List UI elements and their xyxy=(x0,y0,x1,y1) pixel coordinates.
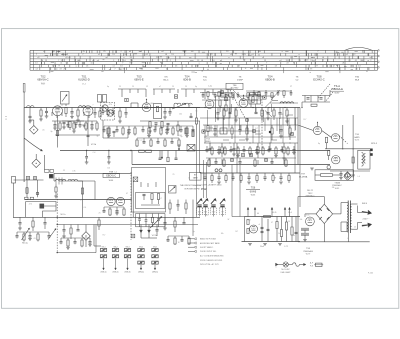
svg-text:L-4: L-4 xyxy=(188,105,191,107)
svg-text:8p: 8p xyxy=(193,231,195,233)
squares row mid xyxy=(242,154,245,157)
svg-text:.05: .05 xyxy=(33,238,35,240)
second rail B2 xyxy=(140,120,200,122)
power left vertical xyxy=(297,197,299,242)
band right end circles xyxy=(378,50,379,69)
terminal square TP3 xyxy=(224,97,227,100)
svg-text:4.7k: 4.7k xyxy=(29,204,32,206)
resistor RE2 xyxy=(26,188,28,194)
resistor RF2 xyxy=(157,194,159,200)
tube TS6b xyxy=(332,134,340,142)
boxed label E7 xyxy=(190,172,202,180)
IF can box TR1 xyxy=(216,96,231,118)
TR extra verticals 2 xyxy=(207,104,296,140)
grid caps D xyxy=(317,123,319,127)
labels above TR tubes xyxy=(208,86,293,88)
ground D2 xyxy=(352,171,354,175)
band top arc right xyxy=(345,47,372,50)
svg-text:P-102: P-102 xyxy=(368,273,374,275)
svg-text:47-4: 47-4 xyxy=(82,84,86,86)
jog glyphs rail xyxy=(25,197,28,199)
capacitor C6 xyxy=(75,122,78,124)
wire rail E left xyxy=(14,179,44,181)
svg-text:P.W.: P.W. xyxy=(201,187,207,191)
IF can box TR2 xyxy=(249,95,261,105)
resistor RD1 xyxy=(325,137,327,143)
svg-text:1/2SP: 1/2SP xyxy=(237,80,243,82)
wire v 132 xyxy=(131,151,133,165)
svg-text:L-4: L-4 xyxy=(206,215,209,217)
wire F inner xyxy=(141,204,160,206)
mains plug P1 xyxy=(358,206,372,228)
VC1 lower caps xyxy=(138,218,141,220)
arrow into rail 179 xyxy=(178,144,180,151)
tube label row xyxy=(37,74,359,85)
coil L2 humps xyxy=(79,106,86,108)
ground C3 xyxy=(70,116,74,118)
resistor RF1 xyxy=(151,194,153,200)
wire drop 162 xyxy=(161,151,163,158)
diag dashed xyxy=(230,90,245,118)
svg-text:25: 25 xyxy=(119,86,121,88)
band right termination ladder xyxy=(345,50,372,70)
svg-text:EQ-7662: EQ-7662 xyxy=(231,88,239,90)
wire v 342.8 xyxy=(342,125,344,149)
svg-text:8u: 8u xyxy=(293,235,295,237)
TR top strip components xyxy=(200,90,292,101)
relay contact column 1 xyxy=(100,246,106,273)
svg-text:L-4: L-4 xyxy=(357,176,360,178)
diamond D jack xyxy=(344,173,352,181)
left margin tiny marks xyxy=(5,116,7,121)
resistor under coil xyxy=(55,187,57,192)
resistor RC5 xyxy=(261,108,263,111)
wire F to right xyxy=(192,200,194,218)
svg-text:THE CIRCUIT DIAGRAM: THE CIRCUIT DIAGRAM xyxy=(180,184,202,187)
ground C2 xyxy=(45,115,49,117)
resistor RF5 xyxy=(174,217,176,221)
svg-text:DIAL LAMP: DIAL LAMP xyxy=(281,271,292,274)
wire rail E step xyxy=(43,155,45,170)
svg-text:25: 25 xyxy=(185,86,187,88)
svg-text:W-73: W-73 xyxy=(355,139,359,141)
capacitor CC8 xyxy=(279,108,281,113)
trimmer box F xyxy=(169,186,177,194)
resistor RF3 xyxy=(169,200,171,204)
svg-text:SPK-3: SPK-3 xyxy=(371,143,378,145)
TL extra drops xyxy=(102,108,115,118)
drop e3 xyxy=(44,217,46,222)
vert 57 connects xyxy=(57,217,58,218)
resistor R15 xyxy=(161,122,163,128)
capacitor C14 xyxy=(190,113,192,116)
loop rect E xyxy=(59,181,83,217)
contact E2 xyxy=(36,192,39,195)
wire v 295 xyxy=(294,108,296,126)
wire hump link xyxy=(173,105,175,108)
svg-text:25: 25 xyxy=(173,174,175,176)
arrowhead gang xyxy=(40,149,42,151)
lower rail C3 xyxy=(204,142,298,144)
diamond jack J1 xyxy=(30,126,39,135)
svg-text:SHORT WAVE 1: SHORT WAVE 1 xyxy=(200,246,213,249)
drop l1 xyxy=(209,143,211,148)
svg-text:1k: 1k xyxy=(278,233,280,235)
svg-text:220V ~: 220V ~ xyxy=(363,219,371,221)
wire bridge top link xyxy=(300,196,310,198)
capacitor C17 xyxy=(113,130,116,132)
capacitor CF3 xyxy=(164,217,166,222)
svg-text:8p: 8p xyxy=(97,135,99,137)
rail D mid xyxy=(325,148,372,150)
diamond jack J2 xyxy=(32,159,41,168)
svg-text:W-63: W-63 xyxy=(251,194,255,196)
svg-text:R-7: R-7 xyxy=(304,119,307,121)
wire v133 solid xyxy=(132,177,134,217)
capacitor C13 xyxy=(169,108,171,112)
ground R1 xyxy=(39,118,43,120)
tube value labels xyxy=(61,99,251,107)
svg-text:C-4a: C-4a xyxy=(208,86,212,88)
drop e6 xyxy=(77,225,79,230)
svg-text:R-7: R-7 xyxy=(235,231,238,233)
wire TS2 down xyxy=(57,116,59,148)
svg-text:W-40: W-40 xyxy=(41,83,45,85)
diamond E xyxy=(82,232,91,241)
capacitor C2 xyxy=(46,108,48,112)
OT1 windings xyxy=(362,153,364,167)
label TS13 xyxy=(332,182,342,190)
svg-text:10k: 10k xyxy=(179,113,182,115)
svg-text:DE-72: DE-72 xyxy=(307,190,314,192)
svg-text:WITH VTVM - AC 117V: WITH VTVM - AC 117V xyxy=(200,263,219,266)
IF transformer T1 can xyxy=(101,103,115,121)
tube humps F2 xyxy=(116,197,124,205)
wire D down xyxy=(301,102,303,108)
svg-text:R-7: R-7 xyxy=(103,234,106,236)
wire bridge bottom xyxy=(323,224,325,242)
speaker loop rect xyxy=(26,202,56,218)
texture long verticals xyxy=(197,108,301,218)
diagonal link wires TR xyxy=(265,101,278,118)
resistor R14 xyxy=(149,122,151,128)
svg-text:R-7: R-7 xyxy=(255,128,258,130)
svg-text:SW1: SW1 xyxy=(204,211,208,213)
resistor RC3 xyxy=(235,108,237,111)
drop e1 xyxy=(19,217,21,222)
svg-text:25: 25 xyxy=(354,227,356,229)
svg-text:TAKE: TAKE xyxy=(193,177,199,180)
svg-text:TS6: TS6 xyxy=(251,187,256,190)
padder boxes xyxy=(98,95,102,103)
G top components xyxy=(204,173,206,177)
wire C verticals top xyxy=(204,89,206,99)
svg-text:4p: 4p xyxy=(107,86,109,88)
wire main top rail xyxy=(24,107,200,109)
resistor RC16 xyxy=(271,125,273,128)
drop c1 xyxy=(217,108,219,113)
resistor R3 xyxy=(77,108,79,111)
resistor R4 xyxy=(99,108,101,112)
svg-text:47: 47 xyxy=(107,131,109,133)
diode F1 xyxy=(140,225,142,231)
texture misc labels xyxy=(29,104,360,244)
resistor RC9 xyxy=(286,108,288,111)
wire bridge right xyxy=(333,213,341,215)
svg-text:(SW-4): (SW-4) xyxy=(138,272,144,274)
wire bottom loop B xyxy=(102,120,104,138)
texture block BM extra xyxy=(103,207,194,245)
wire jack J1 stub xyxy=(33,120,35,126)
svg-text:R-7: R-7 xyxy=(57,109,60,111)
drop l4 xyxy=(257,143,259,147)
svg-text:12: 12 xyxy=(61,105,63,107)
capacitor CF1 xyxy=(143,193,146,195)
svg-text:SW-4: SW-4 xyxy=(139,246,143,248)
svg-text:4.7k: 4.7k xyxy=(109,104,112,106)
svg-text:SW-4: SW-4 xyxy=(362,203,368,205)
resistor R28b xyxy=(146,150,152,152)
svg-text:10k: 10k xyxy=(299,219,302,221)
drop l2 xyxy=(221,143,223,147)
drop l5 xyxy=(269,143,271,148)
svg-text:ECH42-C: ECH42-C xyxy=(313,78,325,82)
rail D bottom xyxy=(330,170,370,172)
coil humps TR right xyxy=(280,102,294,104)
rail C top xyxy=(200,88,232,90)
svg-text:W-64: W-64 xyxy=(109,180,113,182)
capacitor C5 xyxy=(63,121,66,123)
rail C mid xyxy=(200,107,300,109)
tube TS9 rect small xyxy=(306,217,315,226)
resistor RG0 on rail xyxy=(264,215,271,217)
svg-text:R-7: R-7 xyxy=(159,198,162,200)
connector box X xyxy=(133,177,138,182)
grid cap TS5 xyxy=(243,96,245,99)
arrow tuning xyxy=(172,104,186,110)
coil LE1 horizontal xyxy=(56,179,66,181)
capacitor CC2 xyxy=(229,108,231,113)
labels filter xyxy=(257,212,292,248)
wire diamond E xyxy=(85,225,87,232)
drop e4 xyxy=(63,225,65,230)
up arrows G xyxy=(247,207,291,216)
VC1 lower rails xyxy=(136,213,166,215)
svg-text:0.01: 0.01 xyxy=(306,214,309,216)
texture block TL dense xyxy=(52,112,100,135)
ground R3 xyxy=(76,119,80,121)
svg-text:6BD6-B: 6BD6-B xyxy=(265,78,275,82)
switch arrow MC1a xyxy=(22,228,30,240)
label TS9 bottom xyxy=(303,248,313,256)
relay contact column 3 xyxy=(124,246,130,273)
svg-text:N-2 6.3V: N-2 6.3V xyxy=(282,269,291,271)
wire v37.5 xyxy=(37,180,39,197)
svg-text:*: * xyxy=(276,267,277,270)
drop e2 xyxy=(32,217,34,221)
svg-text:47: 47 xyxy=(80,199,82,201)
capacitor CF2 xyxy=(177,200,179,205)
texture block TM dense xyxy=(103,89,201,162)
svg-text:6BY6A-C: 6BY6A-C xyxy=(37,78,48,82)
dial lamp circuit xyxy=(276,262,324,274)
double circle connector xyxy=(215,169,218,172)
small circle node xyxy=(327,166,330,169)
capacitor CC14 xyxy=(239,125,241,129)
VC1 enclosure box xyxy=(132,168,166,213)
tube TS6a xyxy=(313,126,321,134)
rail E second xyxy=(57,224,198,226)
resistor RC1 xyxy=(223,108,225,111)
wire D verticals xyxy=(304,96,306,103)
resistor RC10 xyxy=(207,126,209,132)
VC1 inner loop xyxy=(136,193,166,209)
svg-text:6-C: 6-C xyxy=(203,80,207,82)
variable arrow VC1 xyxy=(150,217,162,229)
resistor RD0 xyxy=(311,104,317,106)
svg-text:C-4: C-4 xyxy=(140,139,143,141)
TR mid extra rails xyxy=(202,100,298,103)
box lower xyxy=(187,145,195,152)
tube humps F1 xyxy=(107,197,115,205)
top right box TB1 xyxy=(315,170,354,181)
io glyphs xyxy=(26,176,29,179)
power bottom rail xyxy=(298,241,370,243)
resistor R5 xyxy=(69,122,71,128)
note P.W. xyxy=(200,184,222,191)
capacitor D1 xyxy=(307,97,310,99)
svg-text:10k: 10k xyxy=(107,167,110,169)
filter block labels xyxy=(247,220,295,238)
resistor RC15 xyxy=(246,125,248,128)
subnet rail D2 xyxy=(302,101,330,103)
tube TS2 triode-hexode xyxy=(53,106,63,116)
wire zig to tubes xyxy=(298,125,313,131)
legend block xyxy=(188,238,224,266)
resistor R18 xyxy=(192,131,194,137)
fsq terminal b xyxy=(370,153,373,156)
dashed diag D xyxy=(339,136,348,144)
resistor R28a xyxy=(139,150,145,152)
svg-text:SW2: SW2 xyxy=(212,211,216,213)
terminal square TP5 xyxy=(202,130,205,133)
switch arrow MC1b xyxy=(48,229,56,240)
wires to lower rail xyxy=(209,158,211,165)
svg-text:25B6GA-C: 25B6GA-C xyxy=(305,195,315,198)
wire loop e right xyxy=(93,225,95,247)
svg-text:PHONO INPUT SEL: PHONO INPUT SEL xyxy=(200,251,216,253)
drop e5 xyxy=(70,225,72,229)
wire osc drops xyxy=(86,151,88,157)
bridge rectifier BR1 xyxy=(316,204,333,223)
terminal square TP2 xyxy=(174,95,177,98)
IF can T2 box xyxy=(154,104,162,119)
resistor R16 xyxy=(107,128,109,134)
capacitor C1 xyxy=(29,115,32,117)
svg-text:25B6GA-E: 25B6GA-E xyxy=(331,88,343,91)
resistor RE1 xyxy=(81,188,83,194)
svg-text:0.01: 0.01 xyxy=(179,135,182,137)
svg-text:6U1M2-D: 6U1M2-D xyxy=(78,78,90,82)
tube T2 circle xyxy=(83,106,93,116)
capacitor C15 xyxy=(155,122,158,124)
svg-text:6BY6-E: 6BY6-E xyxy=(134,78,143,82)
svg-text:8p: 8p xyxy=(51,131,53,133)
resistor R12 in can xyxy=(156,106,158,112)
G grounds xyxy=(217,181,221,183)
grid cap TS3 xyxy=(146,100,148,103)
drop f2 xyxy=(156,225,158,230)
dashed volume line xyxy=(130,172,132,240)
dots rail D xyxy=(342,148,343,149)
components right of R28 xyxy=(177,125,179,131)
TR dots xyxy=(204,107,290,144)
fsq connector xyxy=(50,175,53,178)
power transformer PT1 xyxy=(341,201,358,234)
relay contact column 2 xyxy=(112,246,118,273)
svg-text:C-4: C-4 xyxy=(93,152,96,154)
tube TS4 det xyxy=(205,100,214,109)
svg-text:8p: 8p xyxy=(318,143,320,145)
svg-text:VC1b: VC1b xyxy=(91,144,97,146)
drop l6 xyxy=(283,143,285,147)
svg-text:8p: 8p xyxy=(205,135,207,137)
svg-text:SW-1: SW-1 xyxy=(102,246,106,248)
dot rail joins xyxy=(86,150,87,151)
svg-text:SW-5: SW-5 xyxy=(153,246,157,248)
wire top D link xyxy=(329,90,331,96)
svg-text:SW-3: SW-3 xyxy=(126,246,130,248)
tuning gang arc xyxy=(24,138,42,151)
svg-text:MC1a: MC1a xyxy=(22,243,28,245)
svg-text:W-87: W-87 xyxy=(335,93,341,95)
svg-text:6D6-B: 6D6-B xyxy=(183,78,191,82)
svg-text:W-85: W-85 xyxy=(335,188,339,190)
capacitor C12 xyxy=(164,108,166,112)
svg-text:AM BROADCAST BAND: AM BROADCAST BAND xyxy=(200,242,221,245)
texture block BL extra xyxy=(16,225,97,253)
boxed label TS6 top xyxy=(226,83,243,89)
svg-text:25: 25 xyxy=(99,212,101,214)
svg-text:W-79: W-79 xyxy=(306,254,310,256)
long rail lower mid xyxy=(132,164,330,166)
square small TP6 xyxy=(253,130,256,133)
svg-text:FROM CHASSIS GROUND: FROM CHASSIS GROUND xyxy=(200,259,223,262)
wire C1 gnd xyxy=(29,118,31,121)
filter rail top xyxy=(245,216,301,218)
rail G top xyxy=(200,172,300,174)
terminal square TP1 xyxy=(125,98,128,101)
dashed AVC line xyxy=(261,96,263,150)
output transformer OT1 xyxy=(358,150,370,169)
resistor RC13 xyxy=(231,125,233,128)
terminal square TP4 xyxy=(263,96,266,99)
resistor RC7 xyxy=(273,108,275,111)
filter rail bottom xyxy=(242,241,301,243)
svg-text:6D6: 6D6 xyxy=(150,103,153,105)
resistor RE3 xyxy=(98,217,100,220)
coil L21 humps xyxy=(174,103,181,105)
capacitor CC17 xyxy=(280,125,282,129)
svg-text:25: 25 xyxy=(172,86,174,88)
wire jack J2 stub xyxy=(35,154,37,159)
wire left vertical bus xyxy=(23,108,25,183)
svg-text:(SW-3): (SW-3) xyxy=(125,272,131,274)
resistor R11 xyxy=(119,108,121,112)
resistor R17 xyxy=(185,128,187,134)
rail E main xyxy=(14,216,201,218)
TM tiny top texts xyxy=(107,86,197,88)
